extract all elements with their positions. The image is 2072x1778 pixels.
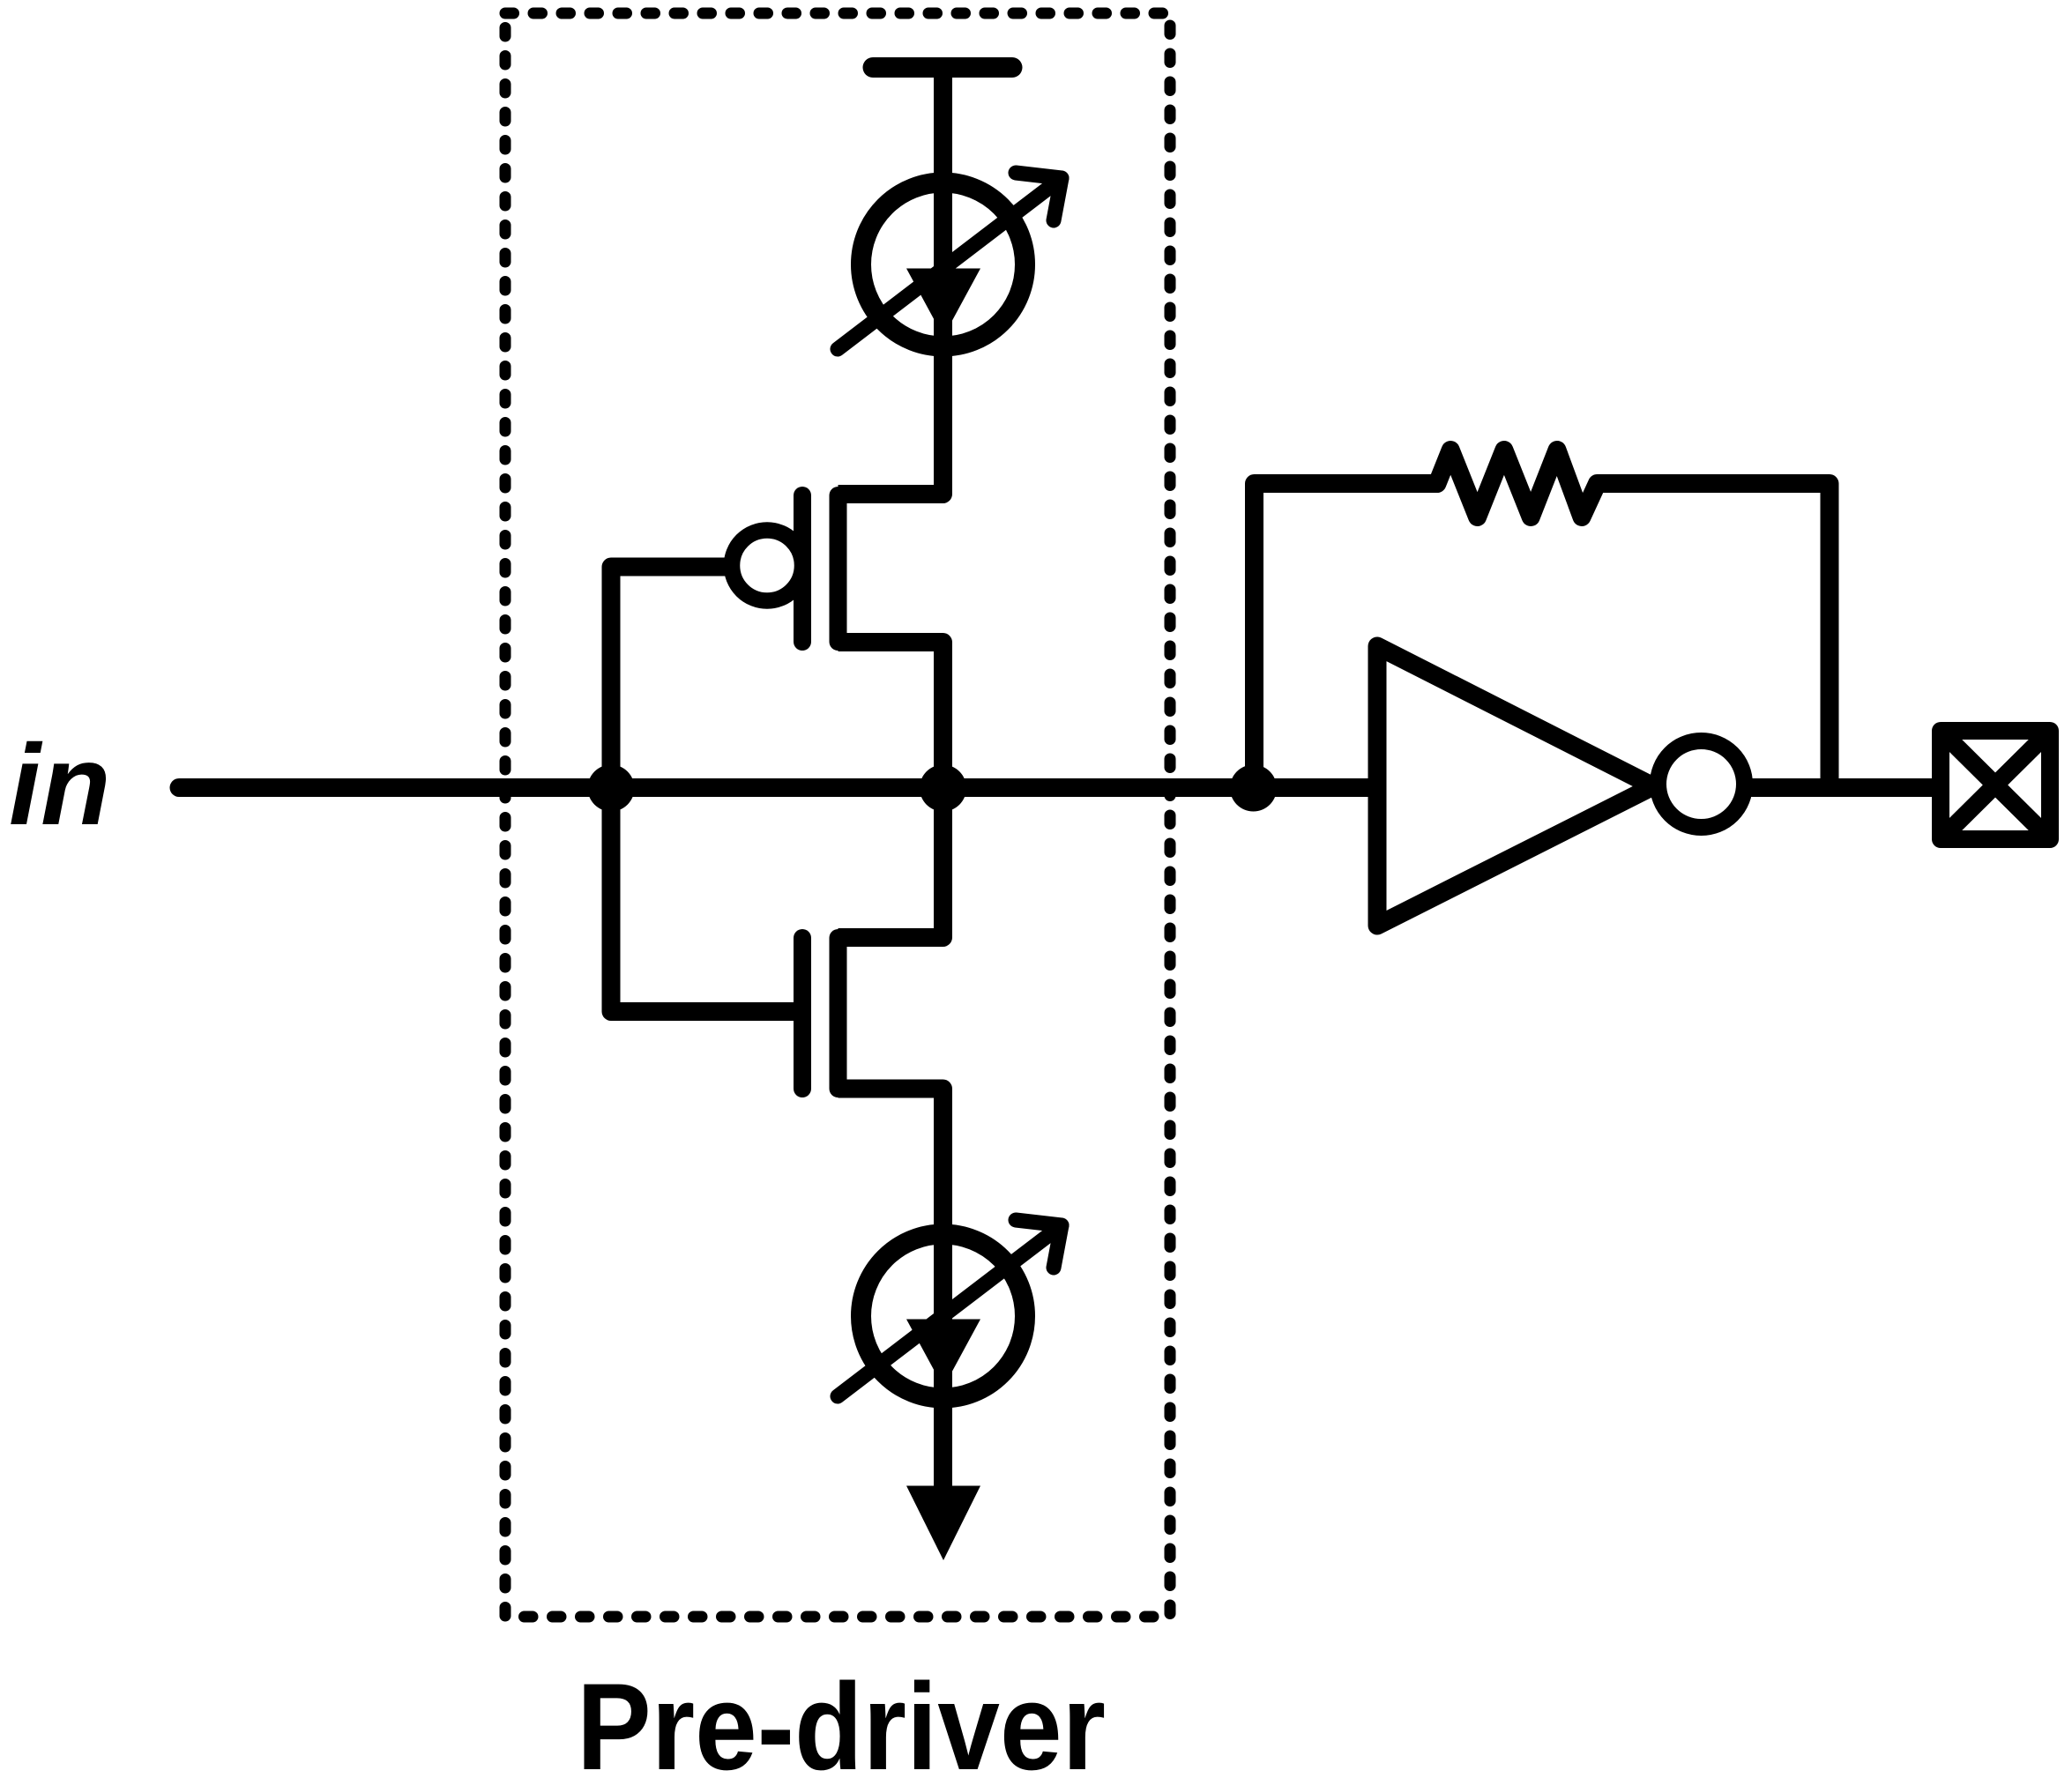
current source I1 arrow head xyxy=(906,269,980,338)
dashed box Pre-driver xyxy=(505,13,1170,1617)
current source I1 circle (variable, top) xyxy=(861,182,1025,346)
wire PMOS source to output node xyxy=(838,643,943,789)
transistor M1 PMOS channel bar xyxy=(830,495,847,642)
current source I2 variable arrow diagonal xyxy=(838,1225,1062,1396)
transistor M2 NMOS gate bar xyxy=(794,938,811,1089)
transistor M1 PMOS gate bar xyxy=(794,495,811,642)
node B junction dot drain node xyxy=(920,765,966,812)
transistor M1 PMOS gate bubble xyxy=(732,531,802,601)
svg-text:in: in xyxy=(9,720,111,849)
resistor R1 in feedback wire (left vertical, top rail, zigzag, right vertical) xyxy=(1255,450,1830,789)
current source I2 arrow head xyxy=(906,1320,980,1388)
wire VDD stem to PMOS drain xyxy=(838,68,943,495)
wire input main horizontal xyxy=(179,778,1377,797)
svg-text:Pre-driver: Pre-driver xyxy=(577,1657,1106,1778)
inverter U1 triangle xyxy=(1377,646,1653,926)
pad (output) square xyxy=(1941,731,2050,839)
pad X diagonal 2 xyxy=(1945,735,2046,835)
current source I2 circle (variable, bottom) xyxy=(861,1234,1025,1398)
node A junction dot gate node xyxy=(588,765,635,812)
wire inverter output to pad xyxy=(1741,778,1932,797)
power VDD bar xyxy=(873,57,1012,78)
node C junction dot inverter input xyxy=(1230,765,1277,812)
current source I1 variable arrow diagonal xyxy=(838,178,1062,349)
transistor M2 NMOS channel bar xyxy=(830,938,847,1089)
ground xyxy=(906,1486,980,1561)
wire NMOS drain to output node xyxy=(838,788,943,938)
wire gate node: PMOS gate, vertical, NMOS gate xyxy=(611,567,794,1012)
pad X diagonal 1 xyxy=(1945,735,2046,835)
wire NMOS source down xyxy=(838,1089,943,1490)
inverter U1 output bubble xyxy=(1658,741,1745,828)
